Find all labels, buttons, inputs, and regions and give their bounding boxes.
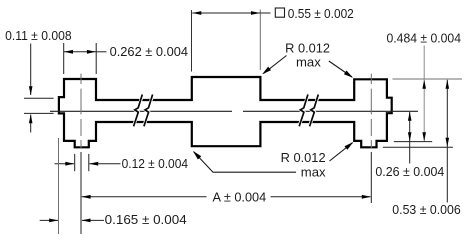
svg-text:max: max [296,55,322,69]
svg-text:R 0.012: R 0.012 [285,41,330,55]
dim 0.12 extension lines [75,154,89,171]
svg-text:max: max [301,166,327,180]
part outline: stepped shaft silhouette [59,77,392,147]
bottom right extension line 1 [394,141,432,143]
svg-text:0.484 ± 0.004: 0.484 ± 0.004 [387,31,462,45]
svg-text:R 0.012: R 0.012 [281,151,326,165]
dim A dimension line [82,196,207,198]
svg-text:0.165 ± 0.004: 0.165 ± 0.004 [105,213,187,227]
dim 0.11 arrows [30,44,32,96]
dim 0.11 extension lines [24,98,54,113]
left vertical centerline [80,74,82,148]
dim 0.55 extension lines [191,10,193,72]
right centerline extension below part [370,152,372,203]
leader arrow to boss top-right corner [264,56,287,74]
dim 0.165 arrows [40,219,58,221]
dim 0.12 arrows [55,163,75,165]
svg-text:0.11 ± 0.008: 0.11 ± 0.008 [5,29,72,43]
svg-text:0.12 ± 0.004: 0.12 ± 0.004 [122,157,188,171]
left centerline extension below part [80,152,82,234]
dim 0.53 dimension line [446,80,448,203]
dim 0.262 dimension line [64,51,96,53]
svg-text:A ± 0.004: A ± 0.004 [213,190,267,204]
right vertical centerline [370,74,372,148]
svg-text:0.26 ± 0.004: 0.26 ± 0.004 [375,165,444,179]
top right extension line [393,78,463,80]
break marks left shaft [134,96,153,126]
break marks right shaft [299,96,318,126]
horizontal centerline [50,110,418,112]
bottom right extension line 2 [383,146,453,148]
dim 0.55 square symbol [275,8,284,17]
dim 0.262 extension lines [64,43,96,74]
dim 0.55 dimension line [192,12,260,14]
leader to right block bottom-left corner [330,143,353,161]
leader to boss bottom-left corner [194,152,296,173]
leader arrow to right block top-left corner [329,61,352,77]
svg-text:0.262 ± 0.004: 0.262 ± 0.004 [110,45,188,59]
dim 0.484 dimension line [423,46,425,142]
dim 0.26 dimension line [409,112,411,164]
dim 0.165 left extension line [58,138,60,234]
svg-text:0.53 ± 0.006: 0.53 ± 0.006 [392,203,460,217]
svg-text:0.55 ± 0.002: 0.55 ± 0.002 [288,7,354,21]
